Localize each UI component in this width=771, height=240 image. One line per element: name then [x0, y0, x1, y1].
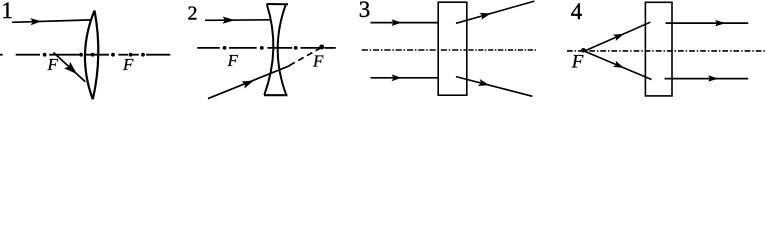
- svg-text:2: 2: [188, 3, 198, 25]
- svg-text:F: F: [47, 55, 59, 74]
- svg-text:1: 1: [1, 0, 13, 24]
- svg-text:F: F: [227, 51, 239, 70]
- svg-text:F: F: [122, 55, 134, 74]
- svg-text:4: 4: [571, 0, 583, 24]
- svg-text:F: F: [571, 51, 584, 72]
- svg-text:3: 3: [359, 0, 371, 22]
- svg-text:F: F: [312, 52, 324, 71]
